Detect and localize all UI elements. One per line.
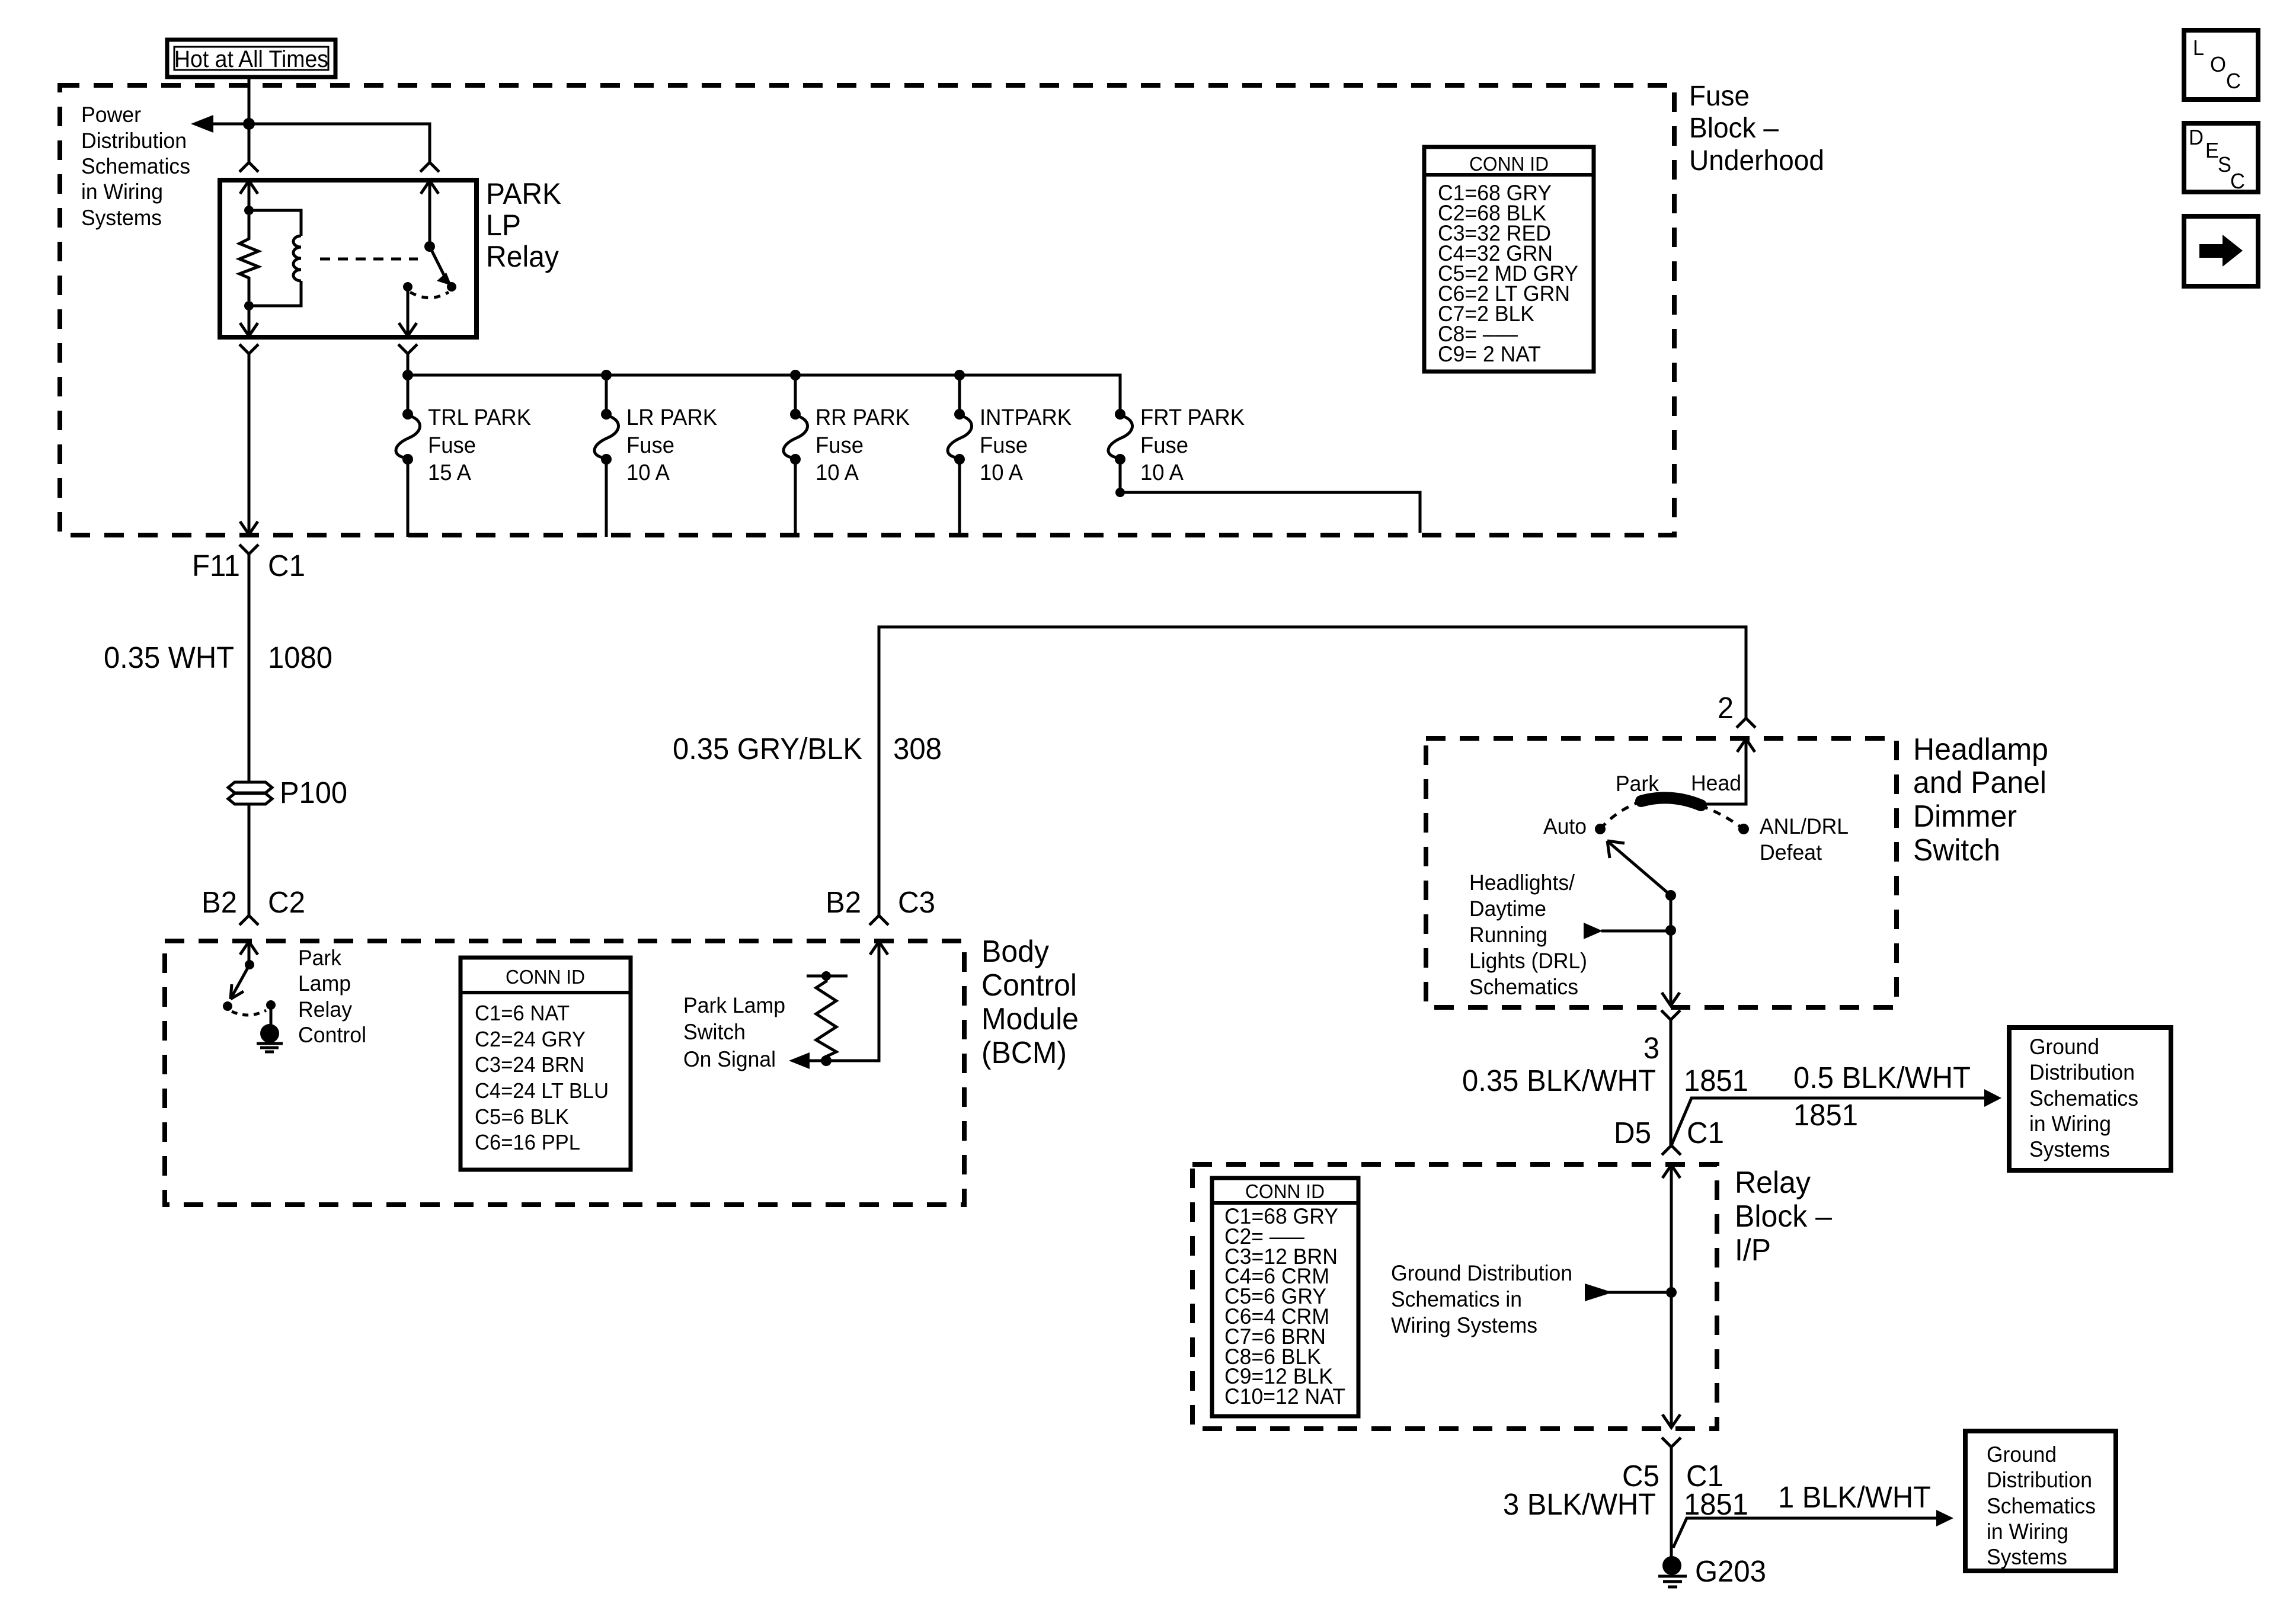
svg-text:E: E xyxy=(2205,138,2219,162)
svg-text:Systems: Systems xyxy=(2029,1137,2110,1161)
svg-text:C4=24 LT BLU: C4=24 LT BLU xyxy=(475,1078,609,1103)
svg-text:Schematics: Schematics xyxy=(81,154,190,178)
svg-text:Body: Body xyxy=(981,934,1049,969)
svg-text:B2: B2 xyxy=(826,885,861,919)
svg-text:Relay: Relay xyxy=(1735,1166,1811,1200)
svg-text:C3=24 BRN: C3=24 BRN xyxy=(475,1052,584,1077)
svg-text:1851: 1851 xyxy=(1684,1064,1748,1097)
svg-text:Park Lamp: Park Lamp xyxy=(683,993,785,1017)
svg-text:308: 308 xyxy=(893,732,942,766)
svg-text:RR PARK: RR PARK xyxy=(816,405,910,430)
svg-text:Schematics: Schematics xyxy=(1987,1494,2096,1518)
svg-text:Headlights/: Headlights/ xyxy=(1469,870,1575,895)
svg-text:1080: 1080 xyxy=(268,641,332,674)
svg-text:0.35 BLK/WHT: 0.35 BLK/WHT xyxy=(1462,1064,1656,1097)
svg-text:15 A: 15 A xyxy=(428,460,472,485)
svg-text:Daytime: Daytime xyxy=(1469,897,1546,921)
svg-text:Running: Running xyxy=(1469,923,1547,947)
svg-text:D: D xyxy=(2189,125,2204,149)
svg-text:1851: 1851 xyxy=(1793,1098,1858,1132)
svg-text:0.5 BLK/WHT: 0.5 BLK/WHT xyxy=(1793,1061,1971,1094)
svg-text:L: L xyxy=(2193,36,2204,60)
svg-text:C3: C3 xyxy=(898,885,935,919)
svg-text:S: S xyxy=(2218,152,2231,177)
svg-text:3 BLK/WHT: 3 BLK/WHT xyxy=(1503,1487,1656,1521)
svg-text:P100: P100 xyxy=(280,776,347,809)
svg-text:PARK: PARK xyxy=(486,177,561,210)
svg-text:Defeat: Defeat xyxy=(1760,840,1822,865)
svg-text:C10=12 NAT: C10=12 NAT xyxy=(1224,1384,1345,1409)
svg-text:Systems: Systems xyxy=(81,206,162,230)
svg-text:Control: Control xyxy=(981,968,1077,1003)
svg-text:F11: F11 xyxy=(192,549,240,582)
svg-text:C9= 2 NAT: C9= 2 NAT xyxy=(1438,342,1541,366)
svg-text:Distribution: Distribution xyxy=(1987,1468,2092,1492)
svg-text:Distribution: Distribution xyxy=(81,129,187,153)
svg-text:O: O xyxy=(2210,52,2226,76)
svg-text:Block –: Block – xyxy=(1689,113,1779,144)
svg-text:in Wiring: in Wiring xyxy=(81,180,163,204)
svg-text:INTPARK: INTPARK xyxy=(980,405,1072,430)
svg-text:Fuse: Fuse xyxy=(1140,433,1188,458)
svg-text:I/P: I/P xyxy=(1735,1233,1771,1267)
svg-text:TRL PARK: TRL PARK xyxy=(428,405,531,430)
svg-text:Ground Distribution: Ground Distribution xyxy=(1391,1261,1572,1285)
svg-text:Auto: Auto xyxy=(1543,814,1587,838)
svg-text:C1: C1 xyxy=(268,549,305,582)
svg-text:1851: 1851 xyxy=(1684,1487,1748,1521)
svg-text:Wiring Systems: Wiring Systems xyxy=(1391,1313,1537,1337)
svg-text:C6=16 PPL: C6=16 PPL xyxy=(475,1130,580,1154)
svg-text:in Wiring: in Wiring xyxy=(2029,1112,2111,1136)
svg-text:Fuse: Fuse xyxy=(1689,81,1750,112)
svg-text:and Panel: and Panel xyxy=(1913,766,2046,800)
svg-text:C: C xyxy=(2226,69,2241,93)
svg-text:(BCM): (BCM) xyxy=(981,1036,1067,1070)
svg-text:1 BLK/WHT: 1 BLK/WHT xyxy=(1778,1480,1931,1514)
svg-text:CONN ID: CONN ID xyxy=(1469,153,1549,175)
svg-text:Park: Park xyxy=(298,946,341,970)
svg-text:Relay: Relay xyxy=(298,997,352,1022)
svg-text:CONN ID: CONN ID xyxy=(506,966,585,988)
svg-text:CONN ID: CONN ID xyxy=(1245,1180,1325,1202)
svg-text:Control: Control xyxy=(298,1023,366,1047)
svg-text:G203: G203 xyxy=(1695,1554,1766,1588)
svg-text:10 A: 10 A xyxy=(980,460,1024,485)
svg-text:Schematics in: Schematics in xyxy=(1391,1287,1522,1311)
svg-text:0.35 WHT: 0.35 WHT xyxy=(104,641,234,674)
svg-text:3: 3 xyxy=(1643,1031,1659,1065)
svg-text:Park: Park xyxy=(1616,772,1659,796)
svg-text:Fuse: Fuse xyxy=(816,433,864,458)
svg-text:C2=24 GRY: C2=24 GRY xyxy=(475,1027,586,1051)
svg-text:Schematics: Schematics xyxy=(1469,975,1578,999)
svg-text:Fuse: Fuse xyxy=(980,433,1028,458)
svg-text:Schematics: Schematics xyxy=(2029,1086,2138,1110)
svg-text:10 A: 10 A xyxy=(626,460,670,485)
svg-text:C1=6 NAT: C1=6 NAT xyxy=(475,1001,570,1025)
svg-text:Switch: Switch xyxy=(683,1020,746,1044)
svg-text:C1: C1 xyxy=(1687,1116,1724,1150)
svg-text:Switch: Switch xyxy=(1913,833,2000,868)
svg-text:Distribution: Distribution xyxy=(2029,1060,2135,1084)
svg-text:Headlamp: Headlamp xyxy=(1913,732,2048,767)
svg-text:ANL/DRL: ANL/DRL xyxy=(1760,814,1849,838)
svg-text:0.35 GRY/BLK: 0.35 GRY/BLK xyxy=(673,732,862,766)
svg-text:LR PARK: LR PARK xyxy=(626,405,717,430)
svg-text:Fuse: Fuse xyxy=(428,433,476,458)
svg-text:Module: Module xyxy=(981,1002,1079,1036)
svg-text:Head: Head xyxy=(1691,771,1741,795)
svg-text:Fuse: Fuse xyxy=(626,433,674,458)
svg-text:Ground: Ground xyxy=(1987,1442,2057,1467)
svg-text:C5=6 BLK: C5=6 BLK xyxy=(475,1105,569,1129)
svg-text:2: 2 xyxy=(1718,691,1734,725)
svg-text:Systems: Systems xyxy=(1987,1545,2067,1569)
svg-text:C: C xyxy=(2230,169,2245,193)
svg-text:On Signal: On Signal xyxy=(683,1047,776,1071)
svg-text:Underhood: Underhood xyxy=(1689,145,1824,177)
svg-text:Hot at All Times: Hot at All Times xyxy=(174,46,328,72)
svg-text:Block –: Block – xyxy=(1735,1199,1832,1234)
svg-text:C2: C2 xyxy=(268,885,305,919)
svg-text:10 A: 10 A xyxy=(1140,460,1184,485)
svg-text:in Wiring: in Wiring xyxy=(1987,1519,2068,1544)
svg-text:B2: B2 xyxy=(202,885,237,919)
svg-text:D5: D5 xyxy=(1614,1116,1651,1150)
svg-text:Dimmer: Dimmer xyxy=(1913,799,2017,834)
svg-text:LP: LP xyxy=(486,209,521,242)
svg-text:Lights (DRL): Lights (DRL) xyxy=(1469,949,1587,973)
svg-text:Ground: Ground xyxy=(2029,1035,2099,1059)
svg-text:10 A: 10 A xyxy=(816,460,859,485)
svg-text:Relay: Relay xyxy=(486,240,559,273)
svg-text:Power: Power xyxy=(81,103,141,127)
svg-text:FRT PARK: FRT PARK xyxy=(1140,405,1245,430)
svg-text:Lamp: Lamp xyxy=(298,971,351,996)
